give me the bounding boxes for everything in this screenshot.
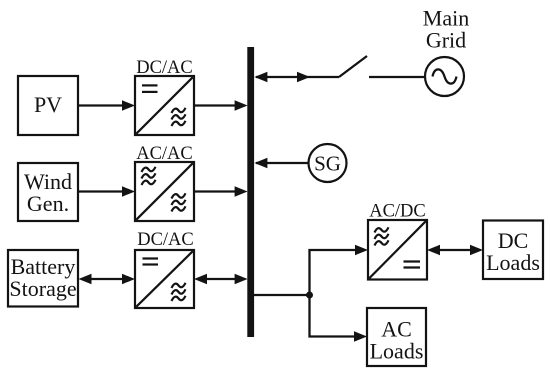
converter U1 DC/AC box: [135, 76, 194, 135]
svg-text:PV: PV: [34, 92, 62, 117]
svg-text:Loads: Loads: [370, 339, 424, 364]
DC Loads box: [483, 221, 543, 280]
converter U4 AC/DC box: [368, 220, 427, 280]
junction node: [306, 292, 313, 299]
PV source box: [18, 76, 78, 135]
switch S1 (open blade): [339, 56, 367, 77]
wire U1 to bus: [194, 100, 248, 110]
AC Loads box: [367, 308, 426, 366]
AC bus bar: [247, 47, 254, 337]
wire PV to U1: [78, 100, 135, 110]
Main Grid label: [423, 6, 469, 53]
Battery Storage box: [8, 250, 78, 307]
converter U2 AC/AC box: [135, 162, 194, 221]
wire U3 to bus (bidirectional): [194, 274, 248, 284]
wire bus to switch (bidirectional): [254, 72, 339, 82]
wire junction up to U4: [310, 245, 369, 295]
wire U4 to DC Loads (bidirectional): [427, 245, 483, 255]
wire Wind Gen to U2: [78, 186, 135, 196]
svg-text:Grid: Grid: [426, 28, 466, 53]
AC source G1 (main grid): [425, 57, 464, 96]
Wind Gen source box: [18, 163, 78, 221]
svg-text:Storage: Storage: [9, 276, 76, 301]
svg-text:DC/AC: DC/AC: [137, 230, 194, 250]
converter U3 DC/AC box: [135, 250, 194, 308]
svg-text:Gen.: Gen.: [27, 191, 69, 216]
wire bus to load junction: [254, 294, 310, 296]
svg-text:SG: SG: [314, 152, 341, 176]
wire junction down to AC Loads: [310, 295, 368, 342]
svg-text:Loads: Loads: [486, 250, 540, 275]
wire U2 to bus: [194, 186, 248, 196]
wire SG to bus: [254, 158, 308, 168]
synchronous generator SG: [309, 144, 347, 182]
wire switch to grid source: [369, 76, 425, 78]
svg-text:AC/DC: AC/DC: [369, 202, 426, 222]
wire Battery to U3 (bidirectional): [79, 274, 136, 284]
